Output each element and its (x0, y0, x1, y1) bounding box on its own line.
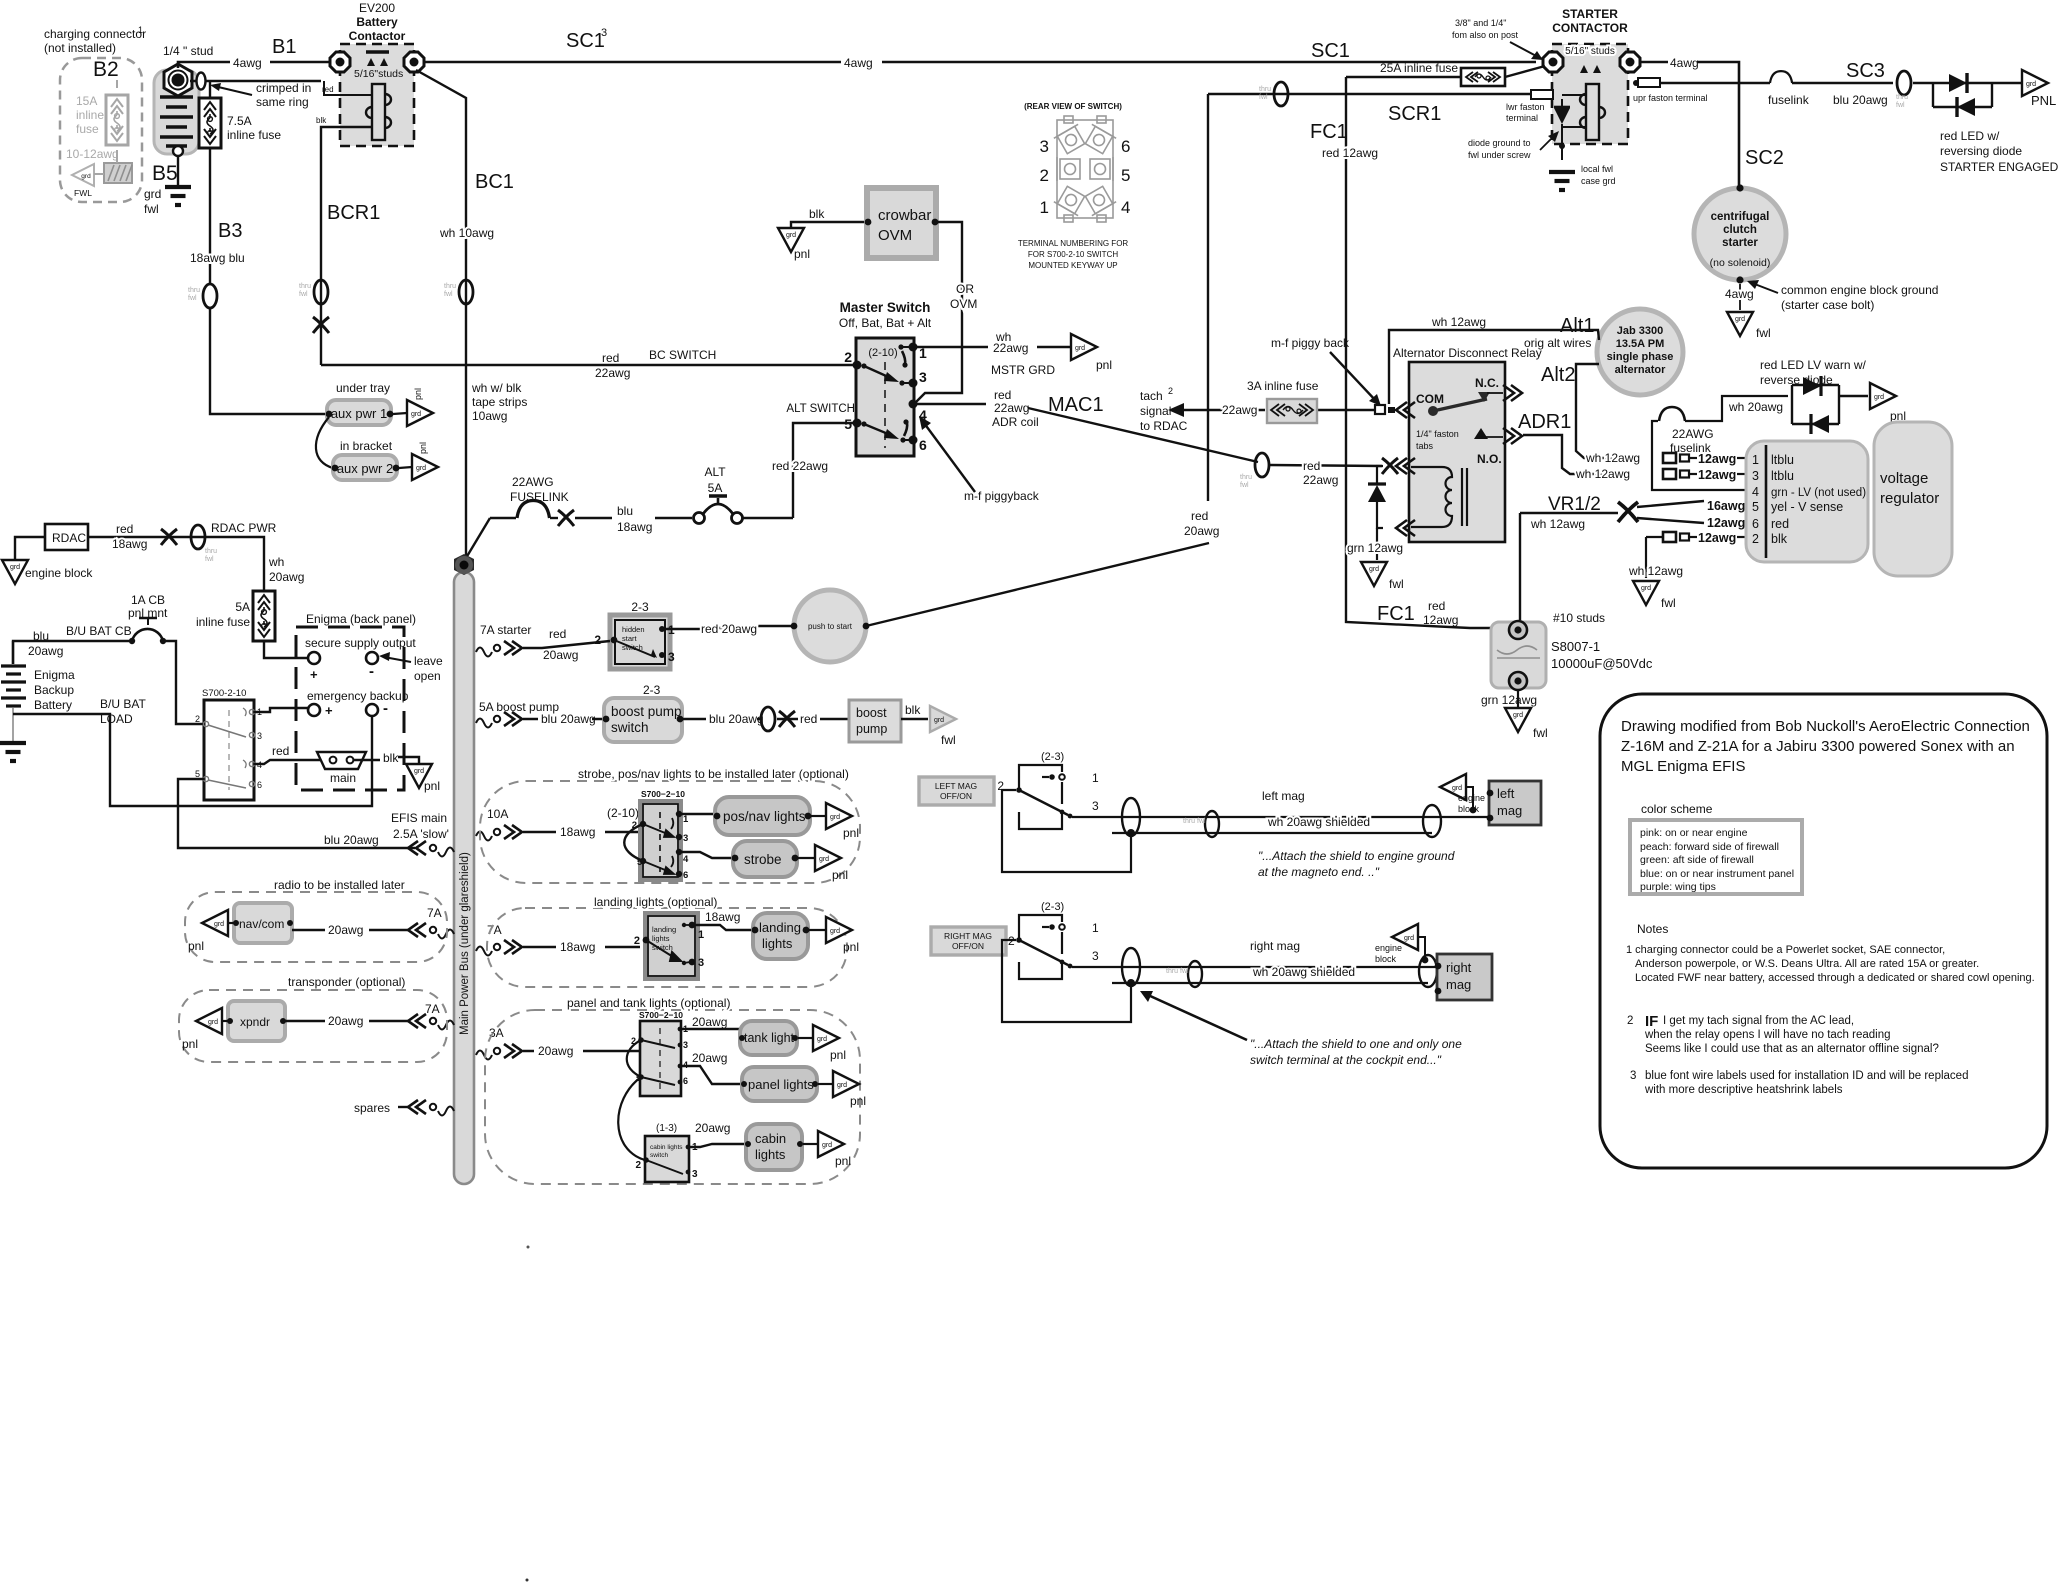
shield ellipse at switch end (1122, 798, 1140, 836)
starter contactor coil (1580, 84, 1605, 140)
svg-text:SCR1: SCR1 (1388, 103, 1441, 125)
svg-text:fwl: fwl (1240, 482, 1249, 489)
svg-text:transponder (optional): transponder (optional) (288, 975, 405, 989)
svg-text:block: block (1458, 804, 1480, 814)
25A inline fuse (1380, 61, 1505, 86)
svg-text:18awg: 18awg (560, 825, 595, 839)
svg-text:22awg: 22awg (993, 341, 1028, 355)
SC3 wire (1792, 82, 1933, 84)
svg-text:6: 6 (683, 870, 688, 881)
svg-text:blu: blu (617, 504, 633, 518)
engine block grd (left mag) (1440, 774, 1485, 814)
22AWG fuselink label (1670, 427, 1714, 455)
EFIS main tap (408, 841, 454, 857)
svg-text:3: 3 (1040, 137, 1049, 156)
svg-text:case grd: case grd (1581, 176, 1616, 186)
strobe group dashed box (480, 767, 860, 883)
svg-text:fwl: fwl (1756, 326, 1771, 340)
grd pnl triangle (crowbar) (778, 228, 810, 261)
svg-text:in bracket: in bracket (340, 439, 393, 453)
svg-text:5A: 5A (708, 481, 723, 495)
svg-text:18awg: 18awg (112, 537, 147, 551)
m-f piggy back note (1271, 336, 1381, 406)
svg-text:EV200: EV200 (359, 1, 395, 15)
svg-text:6: 6 (1121, 137, 1130, 156)
fan wire to pin6 12awg (1637, 516, 1752, 530)
grd pnl (xpndr) (182, 1008, 228, 1051)
15A inline fuse (gray, not installed) (106, 95, 128, 145)
svg-text:"...Attach the shield to engin: "...Attach the shield to engine ground (1258, 849, 1455, 863)
svg-text:pnl: pnl (830, 1048, 846, 1062)
wire FC1 to capacitor (1346, 612, 1518, 628)
battery top 1/4" stud (163, 44, 213, 96)
4awg wire below starter (1725, 284, 1754, 310)
SCR1 vertical to push-to-start (1207, 94, 1209, 501)
7A radio tap (408, 906, 454, 939)
svg-text:pnl: pnl (843, 940, 859, 954)
svg-text:10A: 10A (487, 807, 508, 821)
SECTION:ENIGMA (0, 521, 449, 848)
thru fwl on SCR1 (1259, 82, 1288, 106)
nav/com (233, 903, 293, 943)
BC SWITCH wire (321, 348, 853, 380)
svg-text:pnl mnt: pnl mnt (128, 606, 168, 620)
svg-text:start: start (622, 634, 638, 643)
svg-text:red: red (116, 522, 133, 536)
svg-text:mag: mag (1446, 977, 1471, 992)
shield ellipse at switch end (right) (1122, 948, 1140, 986)
wire bus to panel switch (523, 1044, 640, 1058)
svg-text:pos/nav lights: pos/nav lights (723, 809, 806, 824)
wire pin4 to main connector red (254, 744, 325, 764)
Master Switch title (839, 300, 932, 330)
svg-text:"...Attach the shield to one a: "...Attach the shield to one and only on… (1250, 1037, 1462, 1051)
thru fwl ellipse on BCR1 (299, 280, 328, 304)
svg-text:Main Power Bus (under glareshi: Main Power Bus (under glareshield) (459, 852, 471, 1035)
common engine block ground note (1747, 280, 1938, 312)
Alt1 wire to relay COM (1389, 315, 1599, 404)
wire push-to-start diagonal to SCR1 (866, 509, 1219, 626)
svg-text:blu 20awg: blu 20awg (709, 712, 764, 726)
ALT 5A switch symbol (694, 465, 794, 524)
wire pin1 to emergency + (254, 708, 308, 712)
charging connector plug (hatched) (104, 163, 132, 183)
svg-text:Off, Bat, Bat + Alt: Off, Bat, Bat + Alt (839, 316, 932, 330)
note 3 (1630, 1070, 1968, 1096)
svg-text:Anderson powerpole, or W.S. D: Anderson powerpole, or W.S. Deans Ultra.… (1635, 958, 1979, 970)
charging connector dashed box B2 (44, 25, 146, 202)
red LED starter engaged label (1940, 129, 2059, 174)
svg-text:pnl: pnl (188, 939, 204, 953)
7A landing tap (476, 923, 522, 956)
blk wire to grd fwl (901, 703, 928, 719)
svg-text:switch: switch (650, 1152, 668, 1159)
wire 5A fuse to secure supply + (264, 641, 308, 658)
aux pwr 1 ground pnl (393, 388, 433, 426)
svg-text:2-3: 2-3 (631, 600, 649, 614)
svg-text:wh 10awg: wh 10awg (439, 226, 494, 240)
1A CB pnl mnt (128, 593, 168, 644)
svg-text:red: red (602, 351, 619, 365)
svg-text:tape strips: tape strips (472, 395, 527, 409)
svg-text:Backup: Backup (34, 683, 74, 697)
X splice VR1/2 (1618, 502, 1638, 522)
svg-text:MOUNTED KEYWAY UP: MOUNTED KEYWAY UP (1028, 261, 1117, 270)
svg-text:10000uF@50Vdc: 10000uF@50Vdc (1551, 656, 1653, 671)
BC1 wire from contactor right stud down (416, 70, 466, 560)
svg-text:peach: forward side of firewa: peach: forward side of firewall (1640, 841, 1779, 853)
svg-text:5: 5 (1121, 166, 1130, 185)
svg-text:lights: lights (762, 936, 793, 951)
svg-text:grd: grd (144, 187, 161, 201)
svg-text:blk: blk (316, 116, 327, 125)
svg-text:red: red (800, 712, 817, 726)
svg-text:red: red (1428, 599, 1445, 613)
svg-text:3: 3 (683, 1040, 688, 1050)
OR OVM wire (916, 222, 977, 402)
svg-text:4: 4 (683, 854, 689, 865)
svg-text:pnl: pnl (418, 442, 428, 454)
svg-text:thru: thru (188, 287, 200, 294)
svg-text:blk: blk (1771, 532, 1788, 546)
relay NC terminal (1503, 385, 1522, 401)
grd pnl (cabin) (803, 1131, 851, 1168)
wire xpndr to bus (285, 1014, 408, 1028)
svg-text:12awg: 12awg (1707, 516, 1745, 530)
RDAC box (45, 524, 88, 550)
svg-text:wh 12awg: wh 12awg (1575, 467, 1630, 481)
boost pump switch (603, 683, 684, 742)
svg-text:m-f piggy back: m-f piggy back (1271, 336, 1350, 350)
svg-text:1: 1 (1092, 921, 1099, 935)
note 2 (1627, 1013, 1939, 1055)
svg-text:BCR1: BCR1 (327, 202, 380, 224)
svg-text:OFF/ON: OFF/ON (952, 941, 984, 951)
svg-text:1/4 " stud: 1/4 " stud (163, 44, 213, 58)
svg-text:thru: thru (299, 283, 311, 290)
attach shield note (right mag) + arrow (1140, 991, 1462, 1067)
svg-text:6: 6 (919, 437, 927, 453)
SECTION:RADIO (179, 878, 447, 1062)
svg-text:3/8" and 1/4": 3/8" and 1/4" (1455, 18, 1506, 28)
diode ground note (1468, 131, 1559, 160)
svg-text:centrifugal: centrifugal (1711, 211, 1770, 223)
title paragraph (1621, 718, 2030, 775)
svg-text:fwl: fwl (1661, 596, 1676, 610)
svg-text:block: block (1375, 954, 1397, 964)
svg-text:-: - (383, 700, 388, 717)
Alternator Disconnect Relay box (1393, 346, 1542, 542)
svg-text:22awg: 22awg (994, 401, 1029, 415)
svg-text:reversing diode: reversing diode (1940, 144, 2022, 158)
jumper pin2 to pin5 (strobe switch) (624, 824, 643, 861)
svg-text:6: 6 (1752, 517, 1759, 531)
svg-text:red: red (1771, 517, 1789, 531)
thru fwl on SC3 (1896, 71, 1911, 109)
svg-text:grd: grd (934, 717, 944, 724)
red LED LV warn label (1760, 358, 1866, 387)
svg-text:10-12awg: 10-12awg (66, 147, 119, 161)
svg-text:blk: blk (905, 703, 921, 717)
svg-text:mag: mag (1497, 803, 1522, 818)
svg-text:wh 12awg: wh 12awg (1431, 315, 1486, 329)
svg-text:SC1: SC1 (1311, 40, 1350, 62)
svg-text:STARTER: STARTER (1562, 7, 1618, 21)
svg-text:cabin: cabin (755, 1131, 786, 1146)
svg-text:ADR1: ADR1 (1518, 411, 1571, 433)
svg-text:inline: inline (76, 108, 104, 122)
svg-text:blk: blk (383, 751, 399, 765)
thru fwl ellipse (right mag) (1166, 961, 1202, 987)
aux pwr 2 ground pnl (399, 442, 438, 480)
EFIS main label (324, 811, 449, 847)
svg-text:18awg blu: 18awg blu (190, 251, 245, 265)
grd pnl (panel) (818, 1071, 866, 1108)
svg-text:pump: pump (856, 722, 887, 736)
svg-text:3: 3 (257, 731, 262, 741)
svg-text:4awg: 4awg (1725, 287, 1754, 301)
wire battery bottom to ground (177, 156, 179, 186)
svg-text:hidden: hidden (622, 625, 645, 634)
svg-text:4awg: 4awg (233, 56, 262, 70)
svg-text:BC SWITCH: BC SWITCH (649, 348, 716, 362)
svg-text:2-3: 2-3 (643, 683, 661, 697)
svg-text:3: 3 (692, 1169, 698, 1180)
local fwl case grd ground (1549, 143, 1616, 190)
EV200 battery contactor (340, 1, 414, 146)
svg-text:BC1: BC1 (475, 171, 514, 193)
svg-text:Notes: Notes (1637, 922, 1668, 936)
svg-text:clutch: clutch (1723, 224, 1757, 236)
grd fwl triangle (reg pin2) (1633, 581, 1676, 610)
svg-text:Enigma (back panel): Enigma (back panel) (306, 612, 416, 626)
svg-text:#10 studs: #10 studs (1553, 611, 1605, 625)
svg-text:crowbar: crowbar (878, 207, 931, 224)
svg-text:red: red (1303, 459, 1320, 473)
backup battery ground (0, 708, 26, 761)
7.5A inline fuse (199, 81, 281, 148)
svg-text:thru: thru (444, 283, 456, 290)
svg-text:3: 3 (1092, 799, 1099, 813)
svg-text:fwl: fwl (144, 202, 159, 216)
engine block grd (right mag) (1375, 924, 1428, 964)
svg-text:16awg: 16awg (1707, 499, 1745, 513)
cabin lights box (745, 1124, 803, 1170)
wire to cabin lights (688, 1121, 746, 1147)
svg-text:2: 2 (1752, 532, 1759, 546)
svg-text:charging connector: charging connector (44, 27, 146, 41)
svg-text:SC2: SC2 (1745, 147, 1784, 169)
svg-text:landing lights (optional): landing lights (optional) (594, 895, 717, 909)
svg-text:blu 20awg: blu 20awg (1833, 93, 1888, 107)
right mag box (1435, 954, 1492, 1000)
thru fwl ellipse (RDAC) (191, 525, 217, 563)
regulator pin box (1746, 441, 1868, 562)
svg-text:ltblu: ltblu (1771, 469, 1794, 483)
S700-2-10 backup switch (195, 688, 262, 800)
blk wire from main connector (354, 751, 419, 765)
svg-text:blue: on or near instrument p: blue: on or near instrument panel (1640, 868, 1794, 880)
relay flyback diode (1368, 466, 1386, 528)
svg-text:engine block: engine block (25, 566, 93, 580)
svg-text:pnl: pnl (835, 1154, 851, 1168)
cabin lights switch (635, 1123, 698, 1182)
svg-text:3: 3 (601, 27, 607, 39)
svg-text:Seems like I could use that as: Seems like I could use that as an altern… (1645, 1043, 1939, 1055)
SCR1 wire (1208, 93, 1531, 95)
SECTION:BUS (354, 554, 531, 1184)
svg-text:wh 12awg: wh 12awg (1585, 451, 1640, 465)
svg-text:green: aft side of firewall: green: aft side of firewall (1640, 854, 1754, 866)
svg-text:panel lights: panel lights (748, 1077, 814, 1092)
grd fwl triangle (capacitor) (1505, 708, 1548, 740)
svg-text:left mag: left mag (1262, 789, 1305, 803)
transponder dashed box (179, 975, 447, 1062)
7A starter tap (476, 623, 531, 657)
svg-text:3: 3 (683, 833, 688, 844)
svg-text:N.O.: N.O. (1477, 452, 1502, 466)
shield ellipse at mag end (right) (1419, 955, 1437, 987)
Jab 3300 alternator (1597, 309, 1683, 395)
left mag box (1487, 781, 1541, 825)
wire bus to strobe switch (523, 806, 640, 839)
svg-text:pnl: pnl (843, 826, 859, 840)
svg-text:22awg: 22awg (1222, 403, 1257, 417)
svg-text:STARTER ENGAGED: STARTER ENGAGED (1940, 160, 2059, 174)
svg-text:switch: switch (611, 720, 649, 735)
svg-text:(no solenoid): (no solenoid) (1710, 257, 1771, 269)
contactor coil (366, 84, 391, 140)
svg-text:strobe, pos/nav lights to be i: strobe, pos/nav lights to be installed l… (578, 767, 849, 781)
svg-text:6: 6 (683, 1076, 688, 1086)
svg-text:FUSELINK: FUSELINK (510, 490, 569, 504)
svg-text:landing: landing (652, 925, 676, 934)
wire upr faston to fuselink (1660, 82, 1739, 84)
SC1 label (left) (566, 27, 607, 52)
svg-text:SC3: SC3 (1846, 60, 1885, 82)
centrifugal clutch starter (1694, 184, 1786, 283)
svg-text:18awg: 18awg (560, 940, 595, 954)
svg-text:red 22awg: red 22awg (772, 459, 828, 473)
svg-text:1: 1 (138, 25, 143, 35)
svg-text:right mag: right mag (1250, 939, 1300, 953)
svg-text:blu 20awg: blu 20awg (324, 833, 379, 847)
strobe box (732, 841, 799, 877)
rear view of switch diagram (1018, 102, 1131, 270)
svg-text:MGL Enigma EFIS: MGL Enigma EFIS (1621, 758, 1745, 775)
svg-text:terminal: terminal (1506, 113, 1538, 123)
xpndr (227, 1001, 286, 1041)
svg-text:blu 20awg: blu 20awg (541, 712, 596, 726)
3/8 and 1/4 fom note (1452, 18, 1543, 60)
svg-text:fuselink: fuselink (1670, 441, 1712, 455)
svg-text:ALT: ALT (704, 465, 726, 479)
svg-text:fwl: fwl (205, 556, 214, 563)
svg-text:2.5A 'slow': 2.5A 'slow' (393, 827, 449, 841)
svg-text:Alt1: Alt1 (1560, 315, 1594, 337)
main connector (317, 752, 366, 785)
svg-text:20awg: 20awg (328, 1014, 363, 1028)
svg-text:2: 2 (1627, 1015, 1633, 1027)
svg-text:panel and tank lights (optiona: panel and tank lights (optional) (567, 996, 730, 1010)
svg-text:pnl: pnl (832, 868, 848, 882)
svg-text:inline fuse: inline fuse (196, 615, 250, 629)
svg-text:fwl: fwl (444, 291, 453, 298)
svg-text:1: 1 (698, 929, 704, 941)
svg-text:lights: lights (652, 934, 670, 943)
radio dashed box (185, 878, 447, 962)
wire from right stud 4awg to SC2 junction (1641, 62, 1739, 188)
X splice at relay coil (1382, 458, 1398, 474)
fuselink connector row3 (1663, 468, 1746, 482)
wh w/ blk tape strips 10awg label (471, 381, 527, 423)
crowbar blk wire to grd pnl (791, 207, 864, 228)
svg-text:wh: wh (268, 555, 284, 569)
svg-text:S700−2−10: S700−2−10 (641, 789, 685, 799)
svg-text:SC1: SC1 (566, 30, 605, 52)
landing group dashed box (487, 895, 847, 987)
svg-text:2: 2 (195, 714, 200, 724)
svg-text:thru fwl: thru fwl (1183, 818, 1206, 825)
wire to panel lights (680, 1051, 742, 1084)
shield ellipse at mag end (1423, 805, 1441, 837)
svg-text:(2-10): (2-10) (607, 806, 639, 820)
red LED w reversing diode (1933, 72, 2022, 117)
svg-text:fuse: fuse (76, 122, 99, 136)
RIGHT MAG OFF/ON label box (931, 927, 1006, 955)
crimped in same ring note (210, 81, 311, 109)
svg-text:(1-3): (1-3) (656, 1123, 677, 1134)
svg-text:thru: thru (1240, 474, 1252, 481)
grn 12awg to grd fwl (relay) (1347, 528, 1403, 560)
svg-text:fwl under screw: fwl under screw (1468, 150, 1531, 160)
svg-text:crimped in: crimped in (256, 81, 311, 95)
red 22awg wire to relay coil (1000, 390, 1382, 487)
svg-text:landing: landing (759, 920, 801, 935)
svg-text:left: left (1497, 786, 1515, 801)
svg-text:1: 1 (1092, 771, 1099, 785)
thru fwl ellipse on B3 (188, 284, 217, 308)
svg-text:Master Switch: Master Switch (840, 300, 931, 315)
Alt2 wire to fuselink row1 (1576, 364, 1640, 465)
grd pnl (nav/com) (188, 910, 234, 953)
m-f piggyback note (master) (919, 416, 1040, 503)
svg-text:thru fwl: thru fwl (1166, 968, 1189, 975)
svg-text:right: right (1446, 960, 1472, 975)
svg-text:open: open (414, 669, 441, 683)
panel S700-2-10 switch (631, 1010, 688, 1096)
svg-text:fwl: fwl (941, 733, 956, 747)
svg-text:under tray: under tray (336, 381, 390, 395)
svg-text:2: 2 (1168, 386, 1173, 396)
svg-text:20awg: 20awg (538, 1044, 573, 1058)
SECTION:LIGHTS (480, 767, 866, 1184)
svg-text:nav/com: nav/com (239, 917, 284, 931)
svg-text:wh 20awg: wh 20awg (1728, 400, 1783, 414)
note 1 (1626, 944, 2035, 984)
svg-text:2: 2 (634, 935, 640, 947)
battery minus wire to emergency minus (13, 714, 372, 806)
RDAC PWR wire (88, 521, 304, 591)
svg-text:fwl: fwl (1896, 102, 1905, 109)
grd pnl triangle MSTR GRD (1071, 334, 1112, 372)
relay coil top chevron (1396, 458, 1415, 474)
svg-text:red: red (994, 388, 1011, 402)
svg-text:switch terminal at the cockpit: switch terminal at the cockpit end..." (1250, 1053, 1442, 1067)
lwr faston terminal (1506, 90, 1553, 123)
VR1/2 wire (1520, 494, 1618, 620)
diode in starter contactor (1554, 95, 1586, 160)
